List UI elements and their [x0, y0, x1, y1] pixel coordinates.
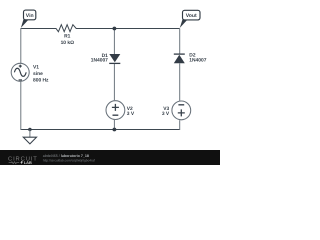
svg-text:abdel465 / laboratorio 7_18: abdel465 / laboratorio 7_18	[43, 154, 89, 158]
svg-text:1N4007: 1N4007	[189, 58, 206, 64]
svg-text:3 V: 3 V	[127, 111, 135, 117]
svg-text:http://circuitlab.com/c/q8ebj/: http://circuitlab.com/c/q8ebj/tgbc4raf	[43, 159, 95, 163]
svg-text:LAB: LAB	[24, 160, 32, 165]
svg-text:Vout: Vout	[186, 13, 197, 19]
svg-text:Vin: Vin	[26, 13, 34, 19]
svg-text:R1: R1	[64, 34, 71, 40]
svg-text:800 Hz: 800 Hz	[33, 77, 49, 83]
svg-text:3 V: 3 V	[162, 111, 170, 117]
svg-text:sine: sine	[33, 71, 43, 77]
svg-text:V1: V1	[33, 65, 39, 71]
svg-text:1N4007: 1N4007	[91, 58, 108, 64]
svg-text:V3: V3	[163, 106, 169, 112]
svg-text:V2: V2	[127, 106, 133, 112]
svg-text:10 kΩ: 10 kΩ	[61, 40, 75, 46]
